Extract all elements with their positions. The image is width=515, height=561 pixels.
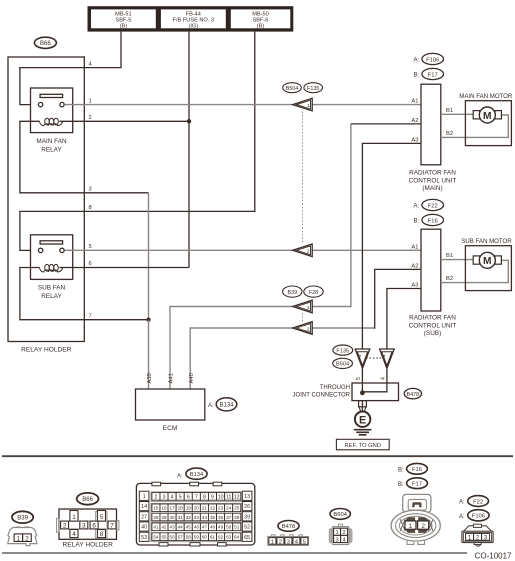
- down arrow 3 (F135/B504 pin 3): [355, 349, 370, 368]
- svg-text:40: 40: [141, 525, 147, 531]
- svg-text:1: 1: [143, 494, 146, 500]
- svg-text:B39: B39: [17, 516, 28, 522]
- svg-text:5: 5: [356, 377, 362, 380]
- B66 ellipse: [34, 37, 56, 48]
- svg-text:49: 49: [218, 525, 224, 530]
- svg-text:15: 15: [153, 506, 159, 511]
- ground hatch: [354, 430, 372, 435]
- svg-text:B1: B1: [446, 108, 453, 114]
- dotted link lower arrows: [302, 313, 304, 322]
- svg-text:1: 1: [17, 536, 21, 543]
- svg-text:B1: B1: [446, 253, 453, 259]
- connector arrow 2 (sub A1): [293, 244, 313, 257]
- B39 ellipse bottom: [12, 511, 33, 523]
- svg-text:RELAY HOLDER: RELAY HOLDER: [21, 347, 72, 354]
- svg-text:29: 29: [161, 515, 167, 520]
- B: F17 ellipse bottom: [398, 478, 427, 489]
- svg-text:A3: A3: [411, 137, 418, 143]
- svg-text:1: 1: [409, 523, 413, 530]
- relay holder connector B66: [57, 509, 119, 539]
- svg-text:2: 2: [25, 536, 29, 543]
- svg-text:6: 6: [92, 523, 96, 530]
- svg-text:F17: F17: [412, 482, 422, 488]
- svg-text:(MAIN): (MAIN): [422, 185, 442, 192]
- svg-text:57: 57: [178, 535, 184, 540]
- svg-text:1: 1: [335, 530, 338, 536]
- B604 connector 2x2: [329, 524, 352, 544]
- svg-text:(B): (B): [257, 23, 265, 29]
- radiator fan control unit (main) box: [421, 84, 441, 165]
- svg-text:B2: B2: [446, 131, 453, 137]
- svg-text:B478: B478: [282, 524, 296, 530]
- wire sub B1: [441, 259, 473, 261]
- svg-text:RADIATOR FAN: RADIATOR FAN: [409, 170, 456, 177]
- svg-text:7: 7: [110, 523, 114, 530]
- svg-text:JOINT CONNECTOR: JOINT CONNECTOR: [293, 392, 351, 398]
- svg-text:B478: B478: [407, 392, 420, 398]
- svg-text:14: 14: [141, 504, 147, 510]
- svg-text:18: 18: [178, 506, 184, 511]
- svg-text:THROUGH: THROUGH: [320, 385, 350, 391]
- svg-text:F22: F22: [473, 499, 483, 505]
- svg-text:B:: B:: [398, 468, 404, 474]
- wire pin6 coil to IG drop: [59, 267, 189, 269]
- svg-text:64: 64: [234, 535, 240, 540]
- B478 ellipse bottom: [278, 521, 299, 532]
- B39 connector shell: [8, 526, 37, 545]
- svg-text:B:: B:: [398, 482, 404, 488]
- svg-text:ECM: ECM: [163, 425, 178, 432]
- B: F16 ellipse: [414, 214, 444, 225]
- svg-text:MAIN FAN: MAIN FAN: [36, 138, 67, 145]
- B: F16 ellipse bottom: [398, 463, 427, 474]
- svg-text:24: 24: [226, 506, 232, 511]
- svg-text:1: 1: [89, 99, 92, 105]
- svg-text:F16: F16: [428, 218, 438, 224]
- wire FB-44 IG drop to pin 6: [188, 32, 190, 268]
- wire pin5 to arrow2 and sub unit A1: [64, 249, 292, 251]
- svg-text:A:: A:: [208, 403, 214, 409]
- A: B134 ellipse bottom: [177, 468, 207, 479]
- svg-text:F16: F16: [412, 467, 422, 473]
- svg-text:48: 48: [210, 525, 216, 530]
- svg-text:F28: F28: [309, 290, 318, 296]
- svg-text:46: 46: [194, 525, 200, 530]
- dotted link arrow1-arrow2: [302, 112, 304, 244]
- svg-text:2: 2: [421, 523, 425, 530]
- svg-text:45: 45: [186, 525, 192, 530]
- down arrow 4 (F135/B504 pin 4): [380, 349, 395, 368]
- svg-text:B134: B134: [219, 403, 234, 409]
- connector arrow 1 upper (B504/F135): [293, 98, 313, 111]
- svg-text:25: 25: [234, 506, 240, 511]
- svg-text:B504: B504: [336, 362, 349, 368]
- svg-text:6: 6: [187, 494, 190, 500]
- svg-text:4: 4: [171, 494, 174, 500]
- svg-text:REF. TO GND: REF. TO GND: [345, 443, 382, 449]
- svg-text:62: 62: [218, 535, 224, 540]
- svg-text:F22: F22: [428, 203, 438, 209]
- main fan motor box: [465, 101, 511, 146]
- svg-text:A41: A41: [169, 373, 175, 383]
- svg-text:4: 4: [72, 531, 76, 538]
- wire SBF-5 drop to pin 4: [20, 32, 121, 105]
- svg-text:38: 38: [234, 515, 240, 520]
- svg-text:7: 7: [195, 494, 198, 500]
- svg-text:A40: A40: [189, 373, 195, 383]
- F28 ellipse: [304, 286, 323, 297]
- svg-text:54: 54: [153, 535, 159, 540]
- svg-text:2: 2: [63, 523, 67, 530]
- svg-text:3: 3: [287, 539, 290, 545]
- svg-text:A1: A1: [411, 245, 418, 251]
- wire main unit A3 down to joint arrow 3: [362, 143, 421, 349]
- svg-text:21: 21: [202, 506, 208, 511]
- svg-text:2: 2: [154, 494, 157, 500]
- svg-text:5: 5: [303, 539, 306, 545]
- svg-text:CONTROL UNIT: CONTROL UNIT: [409, 322, 457, 329]
- svg-text:2: 2: [307, 326, 310, 332]
- wire main B1: [441, 113, 473, 115]
- svg-text:RELAY: RELAY: [41, 293, 62, 300]
- svg-text:A:: A:: [177, 474, 183, 480]
- svg-text:F135: F135: [307, 86, 319, 92]
- svg-text:4: 4: [382, 354, 388, 357]
- svg-text:23: 23: [218, 506, 224, 511]
- dotted link down arrows: [366, 357, 383, 359]
- svg-text:5: 5: [100, 514, 104, 521]
- svg-text:(SUB): (SUB): [424, 330, 441, 337]
- svg-text:B:: B:: [414, 219, 420, 225]
- svg-text:7: 7: [89, 313, 92, 319]
- svg-text:A1: A1: [411, 99, 418, 105]
- svg-text:A3: A3: [411, 283, 418, 289]
- svg-text:A2: A2: [411, 118, 418, 124]
- wire arrow1 to main unit A2: [312, 124, 351, 307]
- svg-text:55: 55: [161, 535, 167, 540]
- svg-text:3: 3: [163, 494, 166, 500]
- REF. TO GND box: [336, 439, 389, 450]
- svg-text:20: 20: [194, 506, 200, 511]
- svg-text:F106: F106: [472, 514, 485, 520]
- svg-text:47: 47: [202, 525, 208, 530]
- svg-text:50: 50: [226, 525, 232, 530]
- B66 ellipse bottom: [77, 493, 99, 505]
- F135 ellipse near joint arrows: [333, 345, 353, 355]
- svg-text:MAIN FAN MOTOR: MAIN FAN MOTOR: [459, 93, 513, 100]
- A: F106 ellipse: [414, 53, 444, 64]
- svg-text:1: 1: [72, 514, 76, 521]
- svg-text:B:: B:: [414, 73, 420, 79]
- svg-text:61: 61: [210, 535, 216, 540]
- svg-text:RELAY HOLDER: RELAY HOLDER: [63, 541, 114, 548]
- B604 ellipse bottom: [330, 509, 350, 520]
- svg-text:11: 11: [226, 494, 231, 500]
- svg-text:60: 60: [202, 535, 208, 540]
- svg-text:2: 2: [89, 115, 92, 121]
- svg-text:1: 1: [307, 103, 310, 109]
- svg-text:A2: A2: [411, 263, 418, 269]
- wire sub unit A3 down to joint arrow 4: [387, 289, 421, 350]
- svg-text:A:: A:: [459, 514, 465, 520]
- svg-text:B134: B134: [190, 472, 204, 478]
- svg-text:3: 3: [82, 523, 86, 530]
- svg-text:33: 33: [194, 515, 200, 520]
- wire A41 to lower arrow 1: [170, 307, 292, 390]
- svg-text:56: 56: [170, 535, 176, 540]
- svg-text:F135: F135: [336, 348, 349, 354]
- svg-text:39: 39: [244, 514, 250, 520]
- svg-text:RADIATOR FAN: RADIATOR FAN: [409, 315, 456, 322]
- svg-text:4: 4: [380, 377, 386, 380]
- wire arrow2 to sub unit A2: [312, 327, 374, 329]
- svg-text:B66: B66: [40, 41, 51, 47]
- unit (sub) caption: [409, 315, 457, 338]
- radiator fan control unit (sub) box: [421, 229, 441, 311]
- main fan motor symbol M: [473, 107, 501, 123]
- F135 ellipse upper: [304, 83, 323, 93]
- B504 ellipse upper: [283, 83, 302, 93]
- svg-text:34: 34: [202, 515, 208, 520]
- ECM box: [136, 389, 205, 420]
- wire A40 to lower arrow 2: [190, 328, 292, 389]
- svg-text:1: 1: [271, 539, 274, 545]
- svg-text:1: 1: [307, 305, 310, 311]
- F16/F17 round connector: [391, 494, 440, 544]
- svg-text:6: 6: [89, 261, 92, 267]
- svg-text:41: 41: [153, 525, 159, 530]
- ground stub connector: [359, 401, 367, 412]
- svg-text:(IG): (IG): [188, 23, 198, 29]
- svg-text:8: 8: [89, 205, 92, 211]
- svg-text:5: 5: [89, 244, 92, 250]
- wire pin2 coil to IG junction: [59, 120, 189, 122]
- svg-text:63: 63: [226, 535, 232, 540]
- svg-text:65: 65: [244, 535, 250, 541]
- connector arrow 1 lower (B39/F28): [293, 300, 313, 313]
- svg-text:F106: F106: [426, 57, 439, 63]
- svg-text:A:: A:: [459, 500, 465, 506]
- svg-text:A:: A:: [414, 204, 420, 210]
- ECM connector B134 grid: [136, 482, 254, 546]
- junction dot pin7/A39: [146, 318, 150, 322]
- svg-text:CO-10017: CO-10017: [475, 551, 512, 560]
- svg-text:43: 43: [170, 525, 176, 530]
- F22/F106 connector 3-pin: [462, 524, 493, 546]
- B39 ellipse: [283, 286, 302, 297]
- svg-text:M: M: [483, 256, 492, 267]
- svg-text:37: 37: [226, 515, 232, 520]
- sub fan relay: [31, 235, 73, 300]
- ECM A: B134 ellipse: [208, 398, 237, 411]
- svg-text:8: 8: [100, 531, 104, 538]
- svg-text:CONTROL UNIT: CONTROL UNIT: [409, 177, 457, 184]
- through joint connector caption: [293, 385, 351, 398]
- svg-text:27: 27: [141, 514, 147, 520]
- svg-text:M: M: [483, 111, 492, 122]
- svg-text:22: 22: [210, 506, 216, 511]
- svg-text:59: 59: [194, 535, 200, 540]
- A: F106 ellipse bottom: [459, 510, 489, 521]
- svg-text:53: 53: [141, 535, 147, 541]
- svg-text:58: 58: [186, 535, 192, 540]
- svg-text:B604: B604: [333, 512, 347, 518]
- ground E symbol: [355, 412, 370, 427]
- svg-text:3: 3: [335, 537, 338, 543]
- relay holder box: [8, 57, 84, 342]
- connector arrow 2 lower (B39/F28): [293, 322, 313, 335]
- svg-text:RELAY: RELAY: [41, 147, 62, 154]
- wire A39 vertical to ECM: [148, 320, 150, 389]
- junction dot inside joint connector: [360, 390, 365, 395]
- svg-text:8: 8: [203, 494, 206, 500]
- B478 ellipse schematic: [404, 388, 421, 398]
- svg-text:B2: B2: [446, 276, 453, 282]
- wire arrow3 to joint connector: [361, 368, 363, 392]
- divider line: [2, 455, 513, 457]
- bottom border line: [2, 552, 467, 554]
- svg-text:36: 36: [218, 515, 224, 520]
- main fan relay: [31, 88, 73, 154]
- sub fan motor box: [465, 246, 511, 291]
- svg-text:A:: A:: [414, 58, 420, 64]
- fuse box MB-51 / FB-44 / MB-50: [88, 6, 294, 31]
- svg-text:35: 35: [210, 515, 216, 520]
- svg-text:B504: B504: [286, 86, 299, 92]
- svg-text:28: 28: [153, 515, 159, 520]
- wire pin7 coil-left route to junction: [20, 268, 149, 320]
- B: F17 ellipse: [414, 68, 444, 79]
- svg-text:16: 16: [161, 506, 167, 511]
- svg-text:13: 13: [244, 494, 250, 500]
- svg-text:9: 9: [211, 494, 214, 500]
- svg-text:19: 19: [186, 506, 192, 511]
- svg-text:5: 5: [179, 494, 182, 500]
- svg-text:32: 32: [186, 515, 192, 520]
- svg-text:(B): (B): [120, 23, 128, 29]
- B504 ellipse near joint arrows: [333, 358, 353, 368]
- wire SBF-6 drop to pin 8: [20, 32, 255, 251]
- svg-text:B39: B39: [288, 290, 298, 296]
- wire main B2 with loop: [441, 115, 509, 137]
- unit (main) caption: [409, 170, 457, 193]
- svg-text:3: 3: [357, 354, 363, 357]
- svg-text:B66: B66: [82, 497, 93, 503]
- through joint connector box: [352, 383, 399, 401]
- svg-text:3: 3: [89, 187, 92, 193]
- svg-text:2: 2: [279, 539, 282, 545]
- svg-text:A39: A39: [147, 373, 153, 383]
- svg-text:17: 17: [170, 506, 176, 511]
- svg-text:26: 26: [244, 504, 250, 510]
- svg-text:2: 2: [307, 249, 310, 255]
- svg-text:12: 12: [234, 494, 240, 500]
- A: F22 ellipse bottom: [459, 496, 489, 507]
- svg-text:SUB FAN: SUB FAN: [38, 285, 66, 292]
- A: F22 ellipse: [414, 199, 444, 210]
- wire pin1 to arrow and unit A1: [64, 104, 292, 106]
- svg-text:42: 42: [161, 525, 167, 530]
- svg-text:52: 52: [244, 525, 250, 531]
- svg-text:44: 44: [178, 525, 184, 530]
- svg-text:51: 51: [234, 525, 240, 530]
- svg-text:SUB FAN MOTOR: SUB FAN MOTOR: [461, 238, 512, 245]
- wire sub B2 with loop: [441, 260, 509, 282]
- sub fan motor symbol M: [473, 252, 501, 268]
- svg-text:E: E: [359, 414, 366, 426]
- svg-text:F17: F17: [428, 72, 438, 78]
- svg-text:2: 2: [342, 530, 345, 536]
- svg-text:30: 30: [170, 515, 176, 520]
- svg-text:31: 31: [178, 515, 184, 520]
- wire arrow4 to joint connector: [362, 368, 387, 391]
- svg-text:10: 10: [218, 494, 224, 500]
- wire pin3 coil-left route to A39 vertical: [20, 121, 149, 193]
- junction dot IG/pin2: [187, 119, 191, 123]
- B478 connector 5-pin: [268, 535, 309, 546]
